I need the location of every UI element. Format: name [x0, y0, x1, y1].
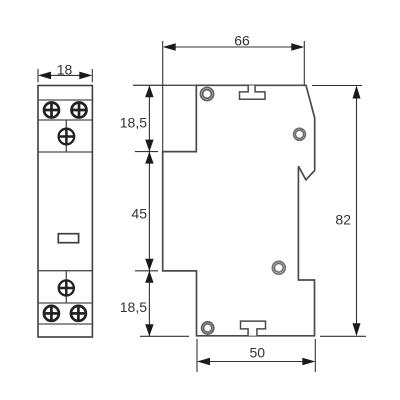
arrow pair at second step [145, 259, 153, 271]
center stub bottom [65, 271, 67, 303]
svg-text:82: 82 [335, 212, 351, 228]
bottom DIN tab [241, 321, 266, 336]
screw hole upper-right of side view [294, 128, 306, 140]
wire line below single top terminal [38, 151, 92, 153]
terminal screw bottom-left [44, 306, 59, 321]
terminal screw top-right [72, 103, 87, 118]
center stub top [65, 120, 67, 152]
wire line above single bottom terminal [38, 270, 92, 272]
side view body outline [163, 85, 315, 335]
svg-text:45: 45 [131, 205, 147, 221]
dimension 82 [312, 86, 366, 337]
wire line top band [38, 99, 92, 101]
screw hole top-left of side view [201, 88, 214, 101]
label window [58, 234, 78, 243]
svg-text:18: 18 [57, 62, 73, 78]
svg-text:50: 50 [250, 345, 266, 361]
screw hole bottom-left of side view [202, 322, 214, 334]
terminal screw bottom-right [71, 306, 86, 321]
front view section lines [38, 100, 92, 324]
arrow down at bottom edge [145, 324, 153, 336]
screw hole mid-right of side view [272, 261, 285, 274]
wire line below top terminals [38, 119, 92, 121]
svg-text:66: 66 [234, 33, 250, 49]
wire line below single bottom terminal [38, 302, 92, 304]
dimension 50 [197, 339, 315, 372]
arrow pair at first step [145, 140, 153, 152]
arrow up at top edge [145, 85, 153, 97]
dimension 66 [163, 41, 305, 152]
top DIN tab [240, 86, 266, 100]
dimension 18 [38, 69, 92, 82]
svg-text:18,5: 18,5 [120, 114, 147, 130]
terminal screw lower single [59, 280, 74, 295]
left dimension column: 18,5 / 45 / 18,5 [135, 85, 189, 336]
front view body outline [38, 86, 92, 338]
svg-text:18,5: 18,5 [120, 299, 147, 315]
terminal screw upper single [59, 129, 75, 145]
terminal screw top-left [44, 103, 59, 118]
side view top edge with left extension [133, 84, 306, 86]
wire line bottom band [38, 323, 92, 325]
